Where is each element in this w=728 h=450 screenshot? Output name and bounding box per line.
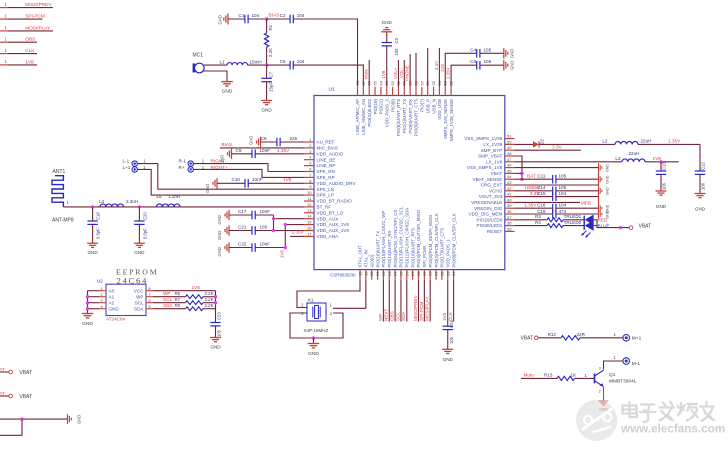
svg-text:TRLED0: TRLED0	[564, 220, 582, 225]
U1 bottom pins 18-34	[358, 206, 457, 280]
wire L-1 to SPK_LN pin 9	[137, 164, 304, 190]
net BIAS at MIC_BIAS pin 2	[220, 142, 304, 148]
wire EEPROM left pins to ground	[86, 291, 99, 314]
wire LEDs to VBAT pin	[594, 220, 630, 230]
svg-text:PIO(14)/UART_RX: PIO(14)/UART_RX	[387, 230, 392, 267]
svg-text:PIO(31)/LED2: PIO(31)/LED2	[367, 98, 372, 126]
svg-text:1V8: 1V8	[653, 156, 662, 161]
ground EEPROM	[82, 314, 94, 328]
svg-text:45: 45	[507, 168, 512, 173]
svg-text:R8: R8	[175, 303, 181, 308]
svg-text:GND: GND	[217, 247, 222, 256]
svg-text:GND: GND	[656, 204, 667, 209]
svg-text:MISO/PREV: MISO/PREV	[413, 295, 418, 321]
svg-text:PIO(3)/PCM_OUT/SPI_MISO: PIO(3)/PCM_OUT/SPI_MISO	[416, 209, 421, 267]
wire CRG_EXT pin 43	[515, 184, 599, 186]
svg-text:XTAL_IN: XTAL_IN	[364, 250, 369, 268]
svg-text:MOSI/PLAY: MOSI/PLAY	[425, 297, 430, 321]
svg-text:33: 33	[445, 271, 450, 276]
ground bottom-left	[68, 414, 82, 424]
svg-text:MFB: MFB	[581, 200, 591, 205]
svg-text:SPI-PCM: SPI-PCM	[25, 14, 45, 19]
svg-text:PIO(5)/PCM_IN/SPI_MOSI: PIO(5)/PCM_IN/SPI_MOSI	[428, 215, 433, 268]
svg-text:2.2K: 2.2K	[205, 303, 214, 308]
svg-text:2.2K: 2.2K	[205, 297, 214, 302]
svg-text:C2: C2	[280, 13, 286, 18]
svg-text:L4: L4	[99, 199, 105, 204]
svg-text:GND: GND	[77, 415, 82, 424]
crystal X1 X4P-16MHZ	[301, 298, 332, 334]
capacitor C4 105 on SMPS_1V8_SENSE pin 53	[440, 47, 504, 87]
svg-text:50: 50	[507, 139, 512, 144]
svg-text:C23: C23	[216, 312, 221, 320]
svg-text:VDD_ANA: VDD_ANA	[317, 234, 340, 239]
svg-text:Moto: Moto	[524, 373, 535, 378]
svg-text:www.elecfans.com: www.elecfans.com	[620, 423, 725, 436]
svg-text:M-1: M-1	[632, 361, 641, 367]
svg-text:GND: GND	[605, 164, 609, 172]
wire pin 17 VDD_ANA with net 1.35V	[290, 229, 305, 236]
svg-text:104: 104	[252, 13, 260, 18]
LED emission arrows	[582, 231, 591, 238]
svg-text:LX_1V8: LX_1V8	[486, 159, 503, 164]
svg-text:PIO(21): PIO(21)	[379, 98, 384, 114]
svg-text:VBAT: VBAT	[19, 370, 32, 376]
svg-text:GND: GND	[82, 321, 93, 327]
svg-text:10nF: 10nF	[260, 148, 271, 153]
capacitor C5 104	[267, 59, 305, 69]
svg-text:26: 26	[404, 271, 409, 276]
svg-text:PIO(1)/UART_TX: PIO(1)/UART_TX	[402, 99, 407, 133]
svg-text:SMP_BYP: SMP_BYP	[481, 148, 503, 153]
svg-text:VBAT: VBAT	[0, 367, 5, 372]
net MFB wire pin 40	[515, 200, 591, 205]
svg-text:LX_1V35: LX_1V35	[483, 142, 502, 147]
svg-text:R12: R12	[548, 332, 557, 337]
wire pin 16 to cluster	[274, 230, 305, 232]
svg-text:48: 48	[507, 151, 512, 156]
wire pin 15 to cluster	[285, 224, 304, 226]
svg-text:C15: C15	[537, 191, 546, 196]
capacitor C6 105 on SMPS_1V35_SENSE pin 52	[446, 59, 504, 87]
svg-text:C5: C5	[280, 59, 286, 64]
svg-text:WP: WP	[163, 291, 171, 296]
svg-text:105: 105	[216, 329, 221, 337]
wire pin 54 net 3.3V	[434, 48, 440, 87]
svg-text:VDD_PADS_1: VDD_PADS_1	[445, 239, 450, 268]
svg-text:32: 32	[439, 271, 444, 276]
svg-text:C18: C18	[96, 212, 101, 220]
svg-text:LINE_AN/MIC_AN: LINE_AN/MIC_AN	[361, 99, 366, 135]
watermark logo circle	[576, 400, 617, 441]
svg-text:13: 13	[307, 208, 312, 213]
ground under C7	[261, 101, 272, 113]
svg-text:12: 12	[307, 202, 312, 207]
svg-text:VDD_AUDIO_DRV: VDD_AUDIO_DRV	[317, 181, 357, 186]
svg-text:C1: C1	[239, 13, 245, 18]
svg-text:R13: R13	[544, 373, 553, 378]
resistor R8 2.2K	[175, 303, 216, 310]
svg-text:14: 14	[307, 214, 312, 219]
svg-text:C12: C12	[701, 162, 706, 170]
svg-text:SPK_RP: SPK_RP	[317, 175, 335, 180]
wire L+1 to SPK_LP pin 10	[137, 169, 304, 195]
net SCL wire	[153, 297, 186, 303]
wire Q1 emitter to gnd	[603, 387, 605, 401]
svg-text:SPK_LP: SPK_LP	[317, 193, 334, 198]
svg-text:47: 47	[507, 157, 512, 162]
net WP wire	[153, 291, 186, 297]
antenna ANT1 ANT-MP8	[52, 169, 74, 224]
svg-text:46: 46	[507, 163, 512, 168]
svg-text:1.35V: 1.35V	[277, 148, 290, 153]
svg-text:VBAT: VBAT	[639, 223, 652, 229]
svg-text:37: 37	[507, 215, 512, 220]
svg-text:42: 42	[507, 186, 512, 191]
svg-text:SDA: SDA	[134, 306, 144, 311]
wire pin 56 USB_P	[427, 48, 429, 87]
svg-text:25: 25	[398, 271, 403, 276]
svg-text:29: 29	[422, 271, 427, 276]
svg-text:23: 23	[387, 271, 392, 276]
svg-text:C8: C8	[261, 136, 267, 141]
inductor L1 15mH	[220, 59, 262, 65]
svg-text:105: 105	[484, 47, 492, 52]
svg-text:GND: GND	[605, 175, 609, 183]
svg-text:GND: GND	[510, 49, 515, 58]
node BIAS	[265, 13, 280, 21]
svg-text:104: 104	[297, 13, 305, 18]
svg-text:GND: GND	[109, 306, 120, 311]
microphone MC1	[193, 53, 205, 73]
wire pin 58	[415, 53, 417, 87]
svg-text:C14: C14	[537, 185, 546, 190]
svg-text:VDD_AUX: VDD_AUX	[317, 216, 339, 221]
net Moto wire to R13	[521, 373, 557, 379]
svg-text:R4: R4	[535, 220, 541, 225]
svg-text:ANT1: ANT1	[53, 169, 66, 175]
svg-text:40: 40	[507, 197, 512, 202]
svg-text:LINE_BP: LINE_BP	[317, 163, 336, 168]
svg-text:20: 20	[369, 271, 374, 276]
net 1V8 bottom wire with capacitor C24 105	[442, 280, 454, 362]
svg-text:PIO(16)/UART_TX: PIO(16)/UART_TX	[375, 231, 380, 268]
node antenna C18	[91, 205, 94, 208]
ground under C20	[134, 243, 145, 255]
svg-text:CSR8635/36: CSR8635/36	[330, 273, 356, 278]
svg-text:BAT: BAT	[527, 173, 536, 178]
U1 right pins 51-35	[464, 134, 514, 234]
svg-text:3.3nH: 3.3nH	[126, 199, 138, 204]
svg-text:L1: L1	[220, 59, 226, 64]
svg-text:GND: GND	[510, 61, 515, 70]
svg-text:PIO(0)/UART_RX: PIO(0)/UART_RX	[408, 99, 413, 134]
svg-text:CRG_EXT: CRG_EXT	[481, 183, 503, 188]
svg-text:Q1: Q1	[609, 372, 616, 378]
svg-text:PIO(8)/UART_RTS: PIO(8)/UART_RTS	[396, 99, 401, 136]
svg-text:SDA: SDA	[401, 311, 406, 321]
resistor R7 2.2K	[175, 297, 216, 304]
inductor L2 22uH	[539, 138, 651, 144]
svg-text:2.2K: 2.2K	[205, 291, 214, 296]
svg-text:VOL-: VOL-	[399, 67, 404, 78]
svg-text:R3: R3	[535, 214, 541, 219]
capacitor C9 10nF on VDD_AUDIO pin 3	[220, 148, 305, 164]
svg-text:GND: GND	[205, 184, 210, 193]
svg-text:1V8: 1V8	[442, 312, 447, 321]
connector M-1	[623, 358, 640, 367]
wire C5 to U1 pin 67	[293, 65, 363, 87]
svg-text:L3: L3	[615, 156, 621, 161]
wire XTAL_IN to X1	[333, 280, 366, 309]
net CLK off-page stub	[0, 48, 37, 54]
svg-text:38: 38	[507, 209, 512, 214]
svg-text:C11: C11	[537, 173, 546, 178]
svg-text:GND: GND	[443, 357, 454, 362]
svg-text:WP: WP	[136, 294, 143, 299]
svg-text:17: 17	[307, 231, 312, 236]
svg-text:41: 41	[507, 192, 512, 197]
net CLK bottom wire	[448, 280, 454, 322]
svg-text:106: 106	[662, 182, 667, 190]
svg-text:105: 105	[394, 48, 399, 56]
svg-text:GND: GND	[222, 89, 233, 95]
svg-text:RED: RED	[598, 218, 608, 223]
svg-text:36: 36	[507, 221, 512, 226]
pin VBAT right	[629, 223, 651, 229]
capacitor C8 225 on AU_REF pin 1	[249, 136, 305, 148]
ground under C12	[695, 194, 706, 212]
wire SMP_VBAT pin 48 to VBAT rail	[515, 156, 524, 181]
svg-text:1V8: 1V8	[25, 59, 34, 64]
svg-text:1V8: 1V8	[192, 285, 201, 290]
svg-text:PIO(17)/UART_CTS: PIO(17)/UART_CTS	[440, 228, 445, 268]
net SDA wire	[153, 303, 186, 309]
svg-text:MISO/PREV: MISO/PREV	[25, 2, 52, 7]
svg-text:OBS: OBS	[390, 311, 395, 321]
svg-text:VOUT_3V3: VOUT_3V3	[479, 194, 503, 199]
resistor R5 2.2K	[175, 291, 216, 298]
net MISO/PREV off-page stub	[0, 2, 53, 8]
inductor L5 1.2nH	[157, 194, 181, 207]
svg-text:L2: L2	[602, 138, 608, 143]
node antenna C20	[138, 205, 141, 208]
resistor R4 TRLED0 on PIO30/LED1 pin 36	[515, 220, 585, 228]
svg-text:USB_P: USB_P	[425, 99, 430, 113]
capacitor C3 105 on VDD_PADS_2 pin 63	[381, 32, 399, 87]
capacitor C21 105 on VDD_AUX_1V8 pin 16	[217, 224, 274, 240]
wire vertical joining C17/C21	[273, 215, 275, 231]
node L1/R1/C5/C7	[265, 63, 268, 66]
resistor R12 22R	[548, 332, 623, 340]
svg-text:U2: U2	[97, 279, 103, 284]
svg-text:3.3V: 3.3V	[434, 61, 439, 70]
svg-text:TRLED1: TRLED1	[564, 214, 582, 219]
svg-text:M+1: M+1	[632, 335, 642, 341]
svg-text:105: 105	[484, 59, 492, 64]
net 1V8 EEPROM VCC	[153, 285, 216, 291]
svg-text:16: 16	[307, 226, 312, 231]
svg-text:64: 64	[378, 80, 383, 85]
svg-text:GND: GND	[605, 187, 609, 195]
svg-text:PIO(6): PIO(6)	[390, 98, 395, 111]
svg-text:C13: C13	[662, 162, 667, 170]
svg-text:SPI-PCM: SPI-PCM	[419, 302, 424, 321]
svg-text:C4: C4	[470, 47, 476, 52]
svg-text:BIAS: BIAS	[269, 13, 280, 19]
svg-text:SCL: SCL	[163, 297, 173, 302]
svg-text:GND: GND	[134, 250, 145, 255]
ground under MC1	[221, 82, 233, 95]
wire pullup bus vertical	[214, 291, 217, 323]
svg-text:1K: 1K	[571, 373, 578, 378]
svg-text:GND: GND	[220, 155, 225, 164]
svg-text:62: 62	[390, 80, 395, 85]
svg-text:PIO30/LED1: PIO30/LED1	[477, 223, 503, 228]
wire C2 to U1 pin 68	[293, 19, 357, 87]
svg-text:1.35V: 1.35V	[668, 139, 681, 144]
svg-text:67: 67	[361, 80, 366, 85]
connector R-1	[179, 159, 205, 167]
resistor R3 TRLED1 on PIO29/LED0 pin 37	[515, 214, 585, 222]
wire pin 61 net VOL+	[393, 60, 398, 87]
svg-text:104: 104	[297, 59, 305, 64]
svg-text:BT_RF: BT_RF	[317, 205, 332, 210]
connector M+1	[623, 335, 642, 342]
wire XTAL_OUT to X1	[297, 280, 360, 308]
ground above C3	[381, 20, 392, 32]
svg-text:C3: C3	[394, 37, 399, 43]
wire MC1 lower terminal to GND	[204, 71, 228, 81]
svg-text:19: 19	[363, 271, 368, 276]
inductor L3 22uH on LX_1V8 pin 47	[515, 151, 646, 162]
svg-text:3: 3	[599, 366, 601, 370]
svg-text:VREGENABLE: VREGENABLE	[471, 200, 502, 205]
U1 left pins 1-17	[304, 137, 356, 239]
svg-text:VDD_BT_LO: VDD_BT_LO	[317, 210, 344, 215]
svg-text:GND: GND	[217, 231, 222, 240]
capacitor C1 104	[218, 13, 260, 25]
pin VBAT to R12	[521, 336, 562, 342]
svg-text:X4P-16MHZ: X4P-16MHZ	[304, 328, 329, 333]
svg-text:VBAT_SENSE: VBAT_SENSE	[473, 177, 503, 182]
svg-text:GND: GND	[382, 20, 393, 25]
svg-text:WP: WP	[378, 314, 383, 321]
svg-text:22R: 22R	[577, 332, 586, 337]
svg-text:GND: GND	[599, 407, 608, 412]
svg-text:SCL: SCL	[395, 312, 400, 321]
svg-text:24: 24	[393, 271, 398, 276]
capacitor C10 10nF on VDD_AUDIO_DRV pin 8	[205, 177, 304, 193]
svg-text:104: 104	[559, 191, 567, 196]
watermark chinese characters	[623, 402, 715, 423]
svg-text:Mute: Mute	[364, 69, 369, 79]
EEPROM U2 AT24C64	[97, 279, 153, 322]
svg-text:SMPS_1V8_SENSE: SMPS_1V8_SENSE	[443, 99, 448, 139]
svg-text:VSS_SMPS_1V35: VSS_SMPS_1V35	[464, 136, 502, 141]
svg-text:65: 65	[372, 80, 377, 85]
wire C1 to BIAS node	[248, 18, 267, 20]
wire R-1 to SPK_RN pin 6	[193, 164, 304, 172]
svg-text:MOSI/PLAY: MOSI/PLAY	[25, 25, 51, 30]
wire pin 66 with net Mute	[364, 60, 370, 87]
svg-text:D2: D2	[540, 138, 545, 144]
svg-text:SDA: SDA	[163, 303, 174, 308]
svg-text:MMBT3904L: MMBT3904L	[609, 379, 637, 385]
svg-text:PIO(8)/PCM_CLK/SPI_CLK: PIO(8)/PCM_CLK/SPI_CLK	[451, 213, 456, 267]
wire M-1 to Q1 collector	[604, 355, 623, 370]
svg-text:U1: U1	[329, 87, 335, 93]
svg-text:AU_REF: AU_REF	[317, 140, 335, 145]
svg-text:1.35V: 1.35V	[292, 229, 305, 234]
connector L+1	[123, 165, 147, 172]
svg-text:VCHG: VCHG	[489, 188, 503, 193]
connector R+1	[179, 165, 205, 172]
svg-text:VBAT: VBAT	[0, 391, 5, 396]
svg-text:A2: A2	[109, 300, 115, 305]
wire pin 59 net PHONE	[405, 54, 410, 87]
svg-text:C21: C21	[238, 224, 247, 229]
ground right of C4	[504, 48, 515, 58]
svg-text:PIO(9)/UART_CTS: PIO(9)/UART_CTS	[414, 99, 419, 136]
ground arrows on bus	[599, 163, 610, 218]
net 1.35V wire to C12	[638, 139, 700, 171]
svg-text:VSS_SMPS_1V8: VSS_SMPS_1V8	[467, 165, 503, 170]
svg-text:10: 10	[307, 190, 312, 195]
wire vertical joining pin15/C22	[284, 225, 286, 248]
svg-text:PIO(16)/UART_RTS: PIO(16)/UART_RTS	[410, 228, 415, 268]
svg-text:22: 22	[381, 271, 386, 276]
svg-text:C9: C9	[236, 148, 242, 153]
svg-text:1V8: 1V8	[381, 70, 386, 78]
svg-text:0.5pF: 0.5pF	[96, 228, 101, 239]
svg-text:R-1: R-1	[179, 159, 187, 164]
svg-text:VDD_DIG_MEM: VDD_DIG_MEM	[469, 212, 503, 217]
wire gnd bottom-left	[0, 417, 67, 435]
svg-text:15pF: 15pF	[269, 82, 274, 92]
net 1.35V wire pin 39 with capacitor C16 104	[515, 202, 599, 212]
op-amp U1 CSR8635 body	[314, 87, 505, 278]
wire MC1 to L1	[204, 64, 227, 66]
svg-text:C6: C6	[470, 59, 476, 64]
svg-text:VDD_USB: VDD_USB	[437, 99, 442, 120]
svg-text:GND: GND	[695, 207, 706, 212]
svg-text:RESET: RESET	[487, 229, 503, 234]
svg-text:VREGIN_DIG: VREGIN_DIG	[474, 206, 503, 211]
svg-text:AT24C64: AT24C64	[106, 317, 126, 322]
svg-text:GND: GND	[261, 108, 272, 113]
svg-text:2.2K: 2.2K	[268, 48, 273, 57]
svg-text:35: 35	[507, 226, 512, 231]
svg-text:105: 105	[260, 224, 268, 229]
svg-text:SPK_RN: SPK_RN	[317, 169, 335, 174]
svg-text:USB_N: USB_N	[431, 99, 436, 114]
svg-text:CLK: CLK	[25, 48, 35, 53]
net SPI-PCM off-page stub	[0, 13, 45, 19]
svg-text:43: 43	[507, 180, 512, 185]
capacitor C20 0.5pF	[134, 207, 147, 243]
svg-text:10nF: 10nF	[252, 177, 263, 182]
svg-text:C20: C20	[142, 212, 147, 220]
svg-text:VDD_AUX_1V8: VDD_AUX_1V8	[317, 222, 350, 227]
svg-text:18: 18	[358, 271, 363, 276]
svg-text:VDD_BT_RADIO: VDD_BT_RADIO	[317, 199, 353, 204]
svg-text:1V8: 1V8	[283, 177, 292, 182]
svg-text:LINE_AP/MIC_AP: LINE_AP/MIC_AP	[355, 99, 360, 135]
svg-text:PIO(11)/FLASH_CIP/I2C_SDA: PIO(11)/FLASH_CIP/I2C_SDA	[405, 208, 410, 268]
svg-text:51: 51	[507, 134, 512, 139]
svg-text:GND: GND	[217, 215, 222, 224]
